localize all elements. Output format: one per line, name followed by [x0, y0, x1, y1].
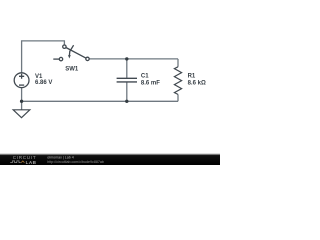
junction dot bottom [125, 100, 128, 103]
wire right rail to resistor top [177, 59, 179, 67]
ground [13, 110, 30, 118]
switch SW1 [53, 45, 89, 61]
svg-text:olmomax | Lab 4: olmomax | Lab 4 [47, 155, 74, 159]
svg-text:R1: R1 [188, 73, 196, 79]
wire ground stub [21, 101, 23, 109]
wire top-left loop [22, 41, 65, 73]
CircuitLab logo waveform [10, 161, 21, 163]
junction dot ground node [20, 100, 23, 103]
wire bottom rail [22, 100, 178, 102]
voltage source V1 [14, 73, 29, 88]
wire resistor bottom to rail [177, 94, 179, 101]
capacitor C1 [117, 78, 137, 82]
junction dot top (node A) [125, 57, 128, 60]
svg-text:C1: C1 [141, 74, 149, 80]
switch arrow head [68, 55, 71, 58]
resistor R1 [174, 67, 181, 95]
svg-text:V1: V1 [35, 74, 43, 80]
wire V1 bottom [21, 88, 23, 102]
wire capacitor top branch [126, 59, 128, 78]
svg-text:http://circuitlab.com/c/bude9c: http://circuitlab.com/c/bude9c887ab [47, 160, 104, 164]
wire capacitor bottom branch [126, 82, 128, 101]
wire switch to right rail [89, 58, 178, 60]
svg-text:8.6 mF: 8.6 mF [141, 80, 160, 86]
svg-text:8.6 kΩ: 8.6 kΩ [188, 80, 206, 86]
svg-text:LAB: LAB [26, 160, 37, 165]
svg-text:6.86 V: 6.86 V [35, 80, 52, 86]
svg-text:SW1: SW1 [65, 66, 79, 72]
CircuitLab logo orange tick [21, 161, 24, 163]
